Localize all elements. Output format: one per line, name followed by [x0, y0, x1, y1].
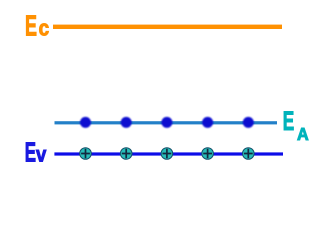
svg-text:E: E	[25, 136, 36, 168]
hole in valence band 1	[80, 148, 92, 160]
label EA	[283, 106, 309, 144]
hole in valence band 3	[161, 148, 173, 160]
conduction band edge line Ec	[53, 25, 282, 29]
hole in valence band 4	[202, 148, 214, 160]
svg-text:E: E	[25, 10, 37, 42]
electron on acceptor level 2	[121, 117, 132, 128]
valence band edge line Ev	[54, 152, 283, 155]
electron on acceptor level 1	[80, 117, 91, 128]
label Ev	[25, 136, 47, 168]
svg-text:E: E	[283, 106, 295, 136]
svg-text:c: c	[39, 16, 50, 41]
label Ec	[25, 10, 49, 42]
hole in valence band 5	[243, 148, 255, 160]
acceptor level line EA	[55, 121, 278, 124]
electron on acceptor level 3	[161, 117, 172, 128]
svg-text:v: v	[36, 144, 46, 167]
svg-text:A: A	[297, 124, 309, 144]
electron on acceptor level 5	[243, 117, 254, 128]
electron on acceptor level 4	[202, 117, 213, 128]
hole in valence band 2	[120, 148, 132, 160]
